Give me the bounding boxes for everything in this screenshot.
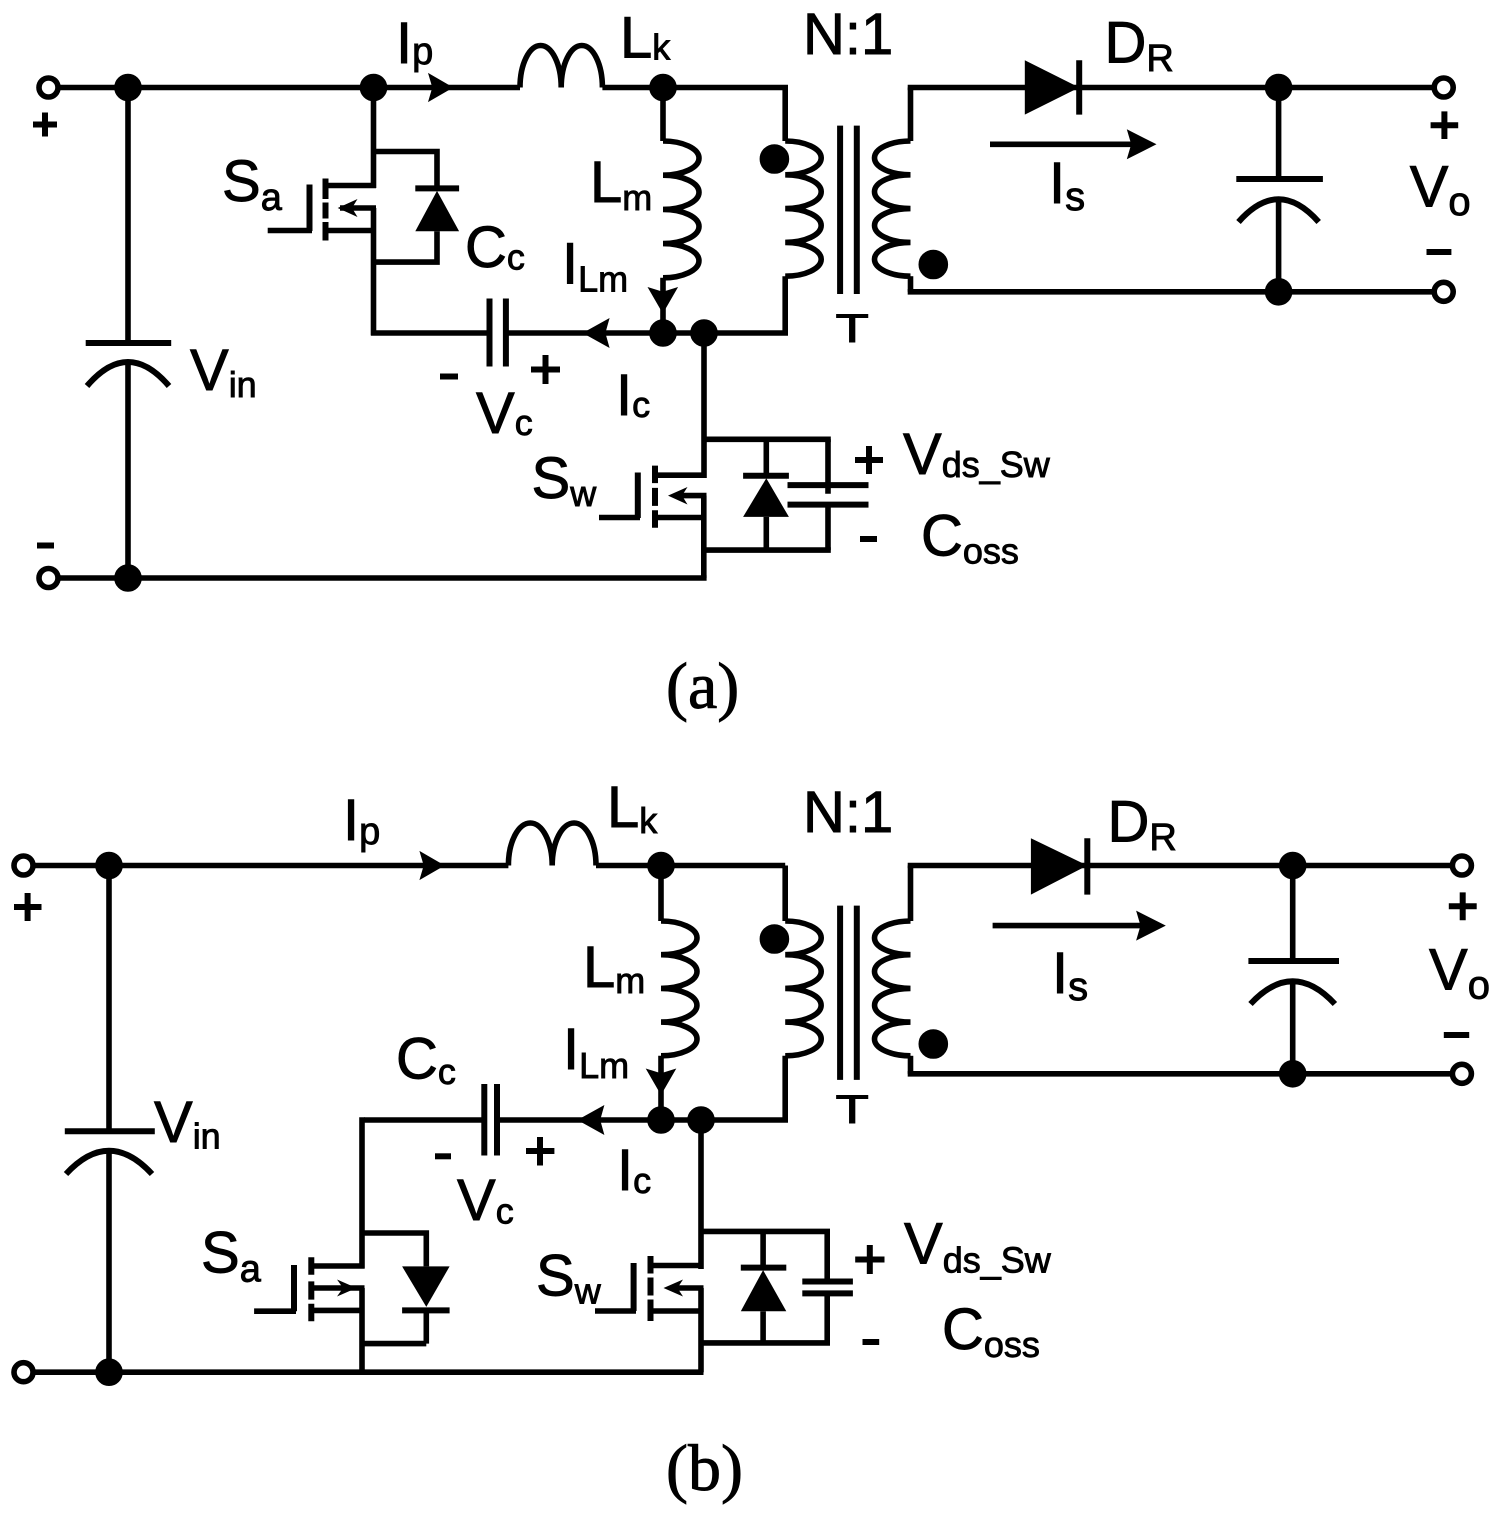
transistor Sa (a) <box>268 88 376 336</box>
svg-text:N:1: N:1 <box>803 2 893 67</box>
label minus Coss (b) <box>863 1339 880 1345</box>
node output top junction (a) <box>1268 77 1290 99</box>
wire Cc to Sa drain (b) <box>359 1117 365 1268</box>
input terminal bottom-left (b) <box>14 1363 33 1382</box>
wire bottom rail (a) <box>58 575 707 581</box>
wire top rail right (a) <box>602 85 788 91</box>
output terminal top-right (a) <box>1434 78 1453 97</box>
node Vin-bottom junction (a) <box>117 567 139 589</box>
label plus Vds_Sw (b) <box>855 1245 884 1274</box>
wire top rail left (b) <box>33 863 508 869</box>
transformer T secondary (b) <box>874 866 910 1074</box>
wire secondary bottom (a) <box>908 289 1434 295</box>
wire bottom rail (b) <box>33 1369 704 1375</box>
node Lm bottom junction (b) <box>650 1109 672 1131</box>
node Vin-top junction (a) <box>117 77 139 99</box>
svg-text:(b): (b) <box>666 1432 743 1505</box>
label plus output (a) <box>1431 111 1459 139</box>
inductor Lm (b) <box>661 866 697 1121</box>
input terminal top-left (b) <box>14 856 33 875</box>
input terminal bottom-left (a) <box>39 569 58 588</box>
capacitor Vin (b) <box>65 866 155 1373</box>
arrow Is current (b) <box>993 911 1166 941</box>
diode Sw body diode (b) <box>701 1231 830 1343</box>
arrow Ip current (b) <box>419 851 444 880</box>
diode Sa body diode (b) <box>362 1233 450 1344</box>
label minus Coss (a) <box>860 536 877 542</box>
inductor Lk (b) <box>508 823 596 866</box>
node output bottom junction (a) <box>1268 281 1290 303</box>
transformer T core (a) <box>840 126 857 294</box>
arrow Ic current into Cc (a) <box>583 318 610 348</box>
transformer T primary (b) <box>701 866 821 1121</box>
label plus output (b) <box>1449 892 1477 920</box>
wire secondary top (b) <box>908 863 1452 869</box>
node secondary polarity dot (b) <box>921 1032 945 1056</box>
arrow Is current (a) <box>990 129 1157 159</box>
capacitor Cc (a) <box>371 299 704 367</box>
node Lm bottom junction (a) <box>652 322 674 344</box>
capacitor Coss (b) <box>802 1231 853 1343</box>
transformer T primary (a) <box>704 88 821 334</box>
wire top rail left (a) <box>58 85 520 91</box>
node Vin-top junction (b) <box>98 855 120 877</box>
node output top junction (b) <box>1282 855 1304 877</box>
node Sw drain junction (a) <box>693 322 715 344</box>
transistor Sw (b) <box>595 1256 704 1372</box>
wire secondary bottom (b) <box>908 1071 1452 1077</box>
transistor Sa (b) <box>254 1257 364 1372</box>
svg-text:(a): (a) <box>666 650 739 723</box>
node Sw drain junction (b) <box>690 1109 712 1131</box>
label minus input (a) <box>37 543 54 549</box>
label minus Vc (a) <box>440 374 458 380</box>
svg-text:T: T <box>836 1088 869 1132</box>
node Lk-Lm junction (b) <box>650 855 672 877</box>
diode DR (b) <box>1031 838 1087 894</box>
capacitor output (b) <box>1248 866 1339 1074</box>
label minus output (a) <box>1427 249 1452 255</box>
inductor Lk (a) <box>520 45 602 87</box>
node Sa drain junction (a) <box>363 77 385 99</box>
diode DR (a) <box>1025 60 1079 114</box>
plus sign input (a) <box>33 113 57 137</box>
input terminal top-left (a) <box>39 78 58 97</box>
inductor Lm (a) <box>663 88 699 334</box>
capacitor Cc (b) <box>364 1084 701 1156</box>
arrow ILm current (a) <box>648 287 679 314</box>
transformer T core (b) <box>840 906 857 1080</box>
arrow Ip current (a) <box>428 73 453 102</box>
label minus output (b) <box>1444 1032 1469 1038</box>
capacitor Vin (a) <box>86 88 172 579</box>
node Vin-bottom junction (b) <box>98 1361 120 1383</box>
diode Sa body diode (a) <box>371 152 459 263</box>
svg-text:T: T <box>836 307 869 351</box>
output terminal bottom-right (a) <box>1434 282 1453 301</box>
plus sign input (b) <box>14 893 42 921</box>
output terminal bottom-right (b) <box>1452 1064 1471 1083</box>
arrow ILm current (b) <box>646 1069 677 1096</box>
transistor Sw (a) <box>599 466 707 578</box>
capacitor output (a) <box>1236 88 1323 292</box>
node output bottom junction (b) <box>1282 1063 1304 1085</box>
diode Sw body diode (a) <box>704 439 831 550</box>
svg-text:N:1: N:1 <box>803 780 893 845</box>
wire Sw drain (a) <box>701 333 707 478</box>
wire Sw drain (b) <box>698 1120 704 1269</box>
label minus Vc (b) <box>435 1153 451 1159</box>
capacitor Coss (a) <box>788 439 869 550</box>
wire secondary top (a) <box>908 85 1434 91</box>
arrow Ic current into Cc (b) <box>577 1105 604 1135</box>
label plus Vc (b) <box>526 1137 554 1166</box>
output terminal top-right (b) <box>1452 856 1471 875</box>
node secondary polarity dot (a) <box>921 253 945 277</box>
wire top rail right (b) <box>596 863 785 869</box>
transformer T secondary (a) <box>875 88 911 292</box>
node primary polarity dot (a) <box>762 147 786 171</box>
label plus Vc (a) <box>531 355 560 384</box>
node Lk-Lm junction (a) <box>652 77 674 99</box>
label plus Vds_Sw (a) <box>855 446 883 474</box>
node primary polarity dot (b) <box>762 927 786 951</box>
